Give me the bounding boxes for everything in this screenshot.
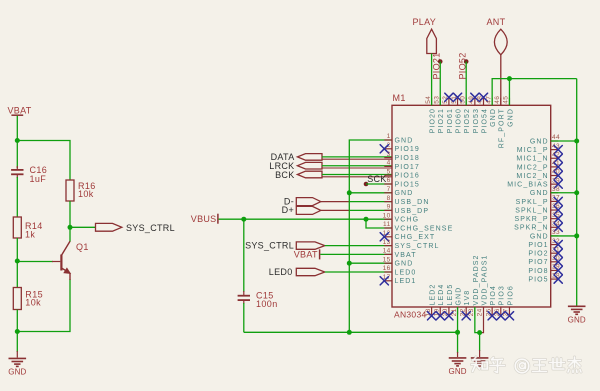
pin 33 GND (right) [530,229,560,240]
pin 6 PIO15 (left) [384,177,420,188]
pin 15 GND (left) [383,256,414,267]
svg-text:USB_DP: USB_DP [395,208,430,215]
no-connect X pin 12 [380,233,388,241]
no-connect X pin 49 [471,93,479,101]
svg-text:SPKL_P: SPKL_P [516,199,549,206]
wire C15 down to bottom ground wire [243,300,245,332]
svg-text:PIO1: PIO1 [528,242,548,249]
pin 1 GND (left) [384,133,413,144]
node rail junction pin 44 [574,139,579,144]
wire pin 45 GND up [508,79,510,106]
no-connect X pin 25 [488,312,496,320]
no-connect X pin 34 [554,223,562,231]
svg-text:GND: GND [395,137,414,144]
svg-text:10k: 10k [78,189,94,199]
node top GND junction [507,76,512,81]
svg-text:10k: 10k [25,298,41,308]
svg-text:PIO8: PIO8 [528,268,548,275]
wire base junction down to R15 [16,261,18,288]
antenna ANT symbol [494,29,507,55]
pin 50 PIO52 (top) [459,96,471,134]
wire LRCK to pin PIO17 [322,166,392,168]
IC value AN3034 [394,310,427,320]
pin 16 LED0 (left) [383,265,417,276]
wire pin 24 VDD_PADS1 down (dark) [480,315,484,333]
pin 54 PIO20 (top) [425,96,437,134]
pin 48 PIO54 (top) [477,96,489,134]
svg-text:CHG_EXT: CHG_EXT [395,234,436,241]
svg-text:46: 46 [494,96,501,104]
pin 26 PIO3 (bottom) [494,285,506,316]
wire PIO52 stub to pin 50 [465,62,467,106]
node VCHG_SENSE junction [364,217,369,222]
no-connect X pin 29 [554,266,562,274]
resistor R15 [13,288,43,310]
pin 41 MIC2_P (right) [517,160,560,171]
pin 19 LED4 (bottom) [433,284,445,317]
node base junction [15,259,20,264]
no-connect X pin 17 [380,277,388,285]
pin 51 PIO60 (top) [451,96,463,134]
no-connect X pin 27 [505,312,513,320]
pin 8 USB_DN (left) [384,195,429,206]
pin 18 LED2 (bottom) [425,284,437,317]
svg-text:8: 8 [387,195,391,202]
no-connect X pin 35 [554,215,562,223]
pin 39 MIC_BIAS (right) [507,177,560,188]
pin 37 SPKL_P (right) [516,195,560,206]
pin 24 VDD_PADS1 (bottom) [477,254,489,316]
wire pin7 GND [349,192,392,194]
input label BCK [275,170,322,180]
svg-text:PIO54: PIO54 [481,108,488,133]
node rail junction pin 33 [574,233,579,238]
wire SCK to pin PIO15 [366,183,392,185]
wire pin15 GND [349,262,392,264]
svg-text:VDD_PADS1: VDD_PADS1 [481,254,488,305]
svg-text:PIO6: PIO6 [507,285,514,305]
pin 30 PIO7 (right) [528,255,560,266]
net label PIO52 with attach dot [457,52,468,79]
pin 3 PIO18 (left) [384,151,420,162]
pin 20 LED5 (bottom) [442,284,454,317]
svg-text:VDD_PADS2: VDD_PADS2 [473,254,480,305]
svg-text:LED4: LED4 [438,284,445,306]
wire C16 to R14 [16,174,18,217]
no-connect X pin 19 [436,312,444,320]
ground GND (bottom left) [8,358,26,376]
svg-text:GND: GND [507,108,514,127]
antenna ANT label [487,17,506,27]
svg-text:16: 16 [383,265,391,272]
svg-text:1uF: 1uF [30,174,47,184]
wire junction to SYS_CTRL output label [70,226,96,228]
pin 53 PIO21 (top) [433,96,445,134]
ground (below IC, second) [471,358,489,366]
svg-text:VBAT: VBAT [294,250,318,260]
wire R15 down to emitter junction [16,310,18,332]
pin 34 SPKR_N (right) [514,221,560,232]
net label SCK with attach dot [364,174,387,186]
wire pin 33 GND to rail [551,235,577,237]
wire junction down to Q1 collector [69,227,71,241]
pin 9 USB_DP (left) [384,204,429,215]
svg-text:47: 47 [485,96,492,104]
no-connect X pin 31 [554,249,562,257]
svg-text:SCK: SCK [367,174,386,184]
wire BCK to pin PIO16 [322,175,392,177]
svg-text:PIO17: PIO17 [395,164,420,171]
node pads junction [477,330,482,335]
no-connect X pin 26 [497,312,505,320]
node rail junction pin 38 [574,190,579,195]
pin 28 PIO5 (right) [528,272,560,283]
no-connect X pin 22 [462,312,470,320]
no-connect X pin 42 [554,154,562,162]
wire junction down to C16 [16,141,18,170]
svg-text:23: 23 [468,308,475,316]
pin 40 MIC2_N (right) [516,169,560,180]
no-connect X pin 28 [554,275,562,283]
no-connect X pin 30 [554,258,562,266]
input label LRCK [269,161,322,171]
pin 5 PIO16 (left) [384,168,420,179]
svg-text:GND: GND [395,190,414,197]
svg-text:9: 9 [387,204,391,211]
no-connect X pin 2 [380,145,388,153]
pin 44 GND (right) [530,134,560,145]
ground GND (right) [568,306,586,324]
pin 31 PIO2 (right) [528,246,560,257]
svg-text:ANT: ANT [487,17,506,27]
svg-text:VCHG: VCHG [395,217,420,224]
pin 4 PIO17 (left) [384,160,420,171]
pin 43 MIC1_P (right) [517,143,560,154]
pin 42 MIC1_N (right) [516,151,560,162]
no-connect X pin 40 [554,171,562,179]
pin 14 VBAT (left) [383,248,417,259]
svg-text:GND: GND [530,138,549,145]
pin 23 VDD_PADS2 (bottom) [468,254,480,316]
wire VBAT down to junction [16,116,18,141]
svg-text:21: 21 [451,308,458,316]
svg-text:SYS_CTRL: SYS_CTRL [395,243,440,250]
supply symbol VBAT (top left) [8,105,32,115]
svg-text:MIC2_N: MIC2_N [516,173,548,180]
svg-text:USB_DN: USB_DN [395,199,430,206]
svg-text:PIO16: PIO16 [395,173,420,180]
svg-text:MIC1_P: MIC1_P [517,147,549,154]
pin 13 SYS_CTRL (left) [383,239,440,250]
svg-text:MIC2_P: MIC2_P [517,164,549,171]
svg-text:GND: GND [455,287,462,306]
svg-text:VBAT: VBAT [8,105,32,115]
no-connect X pin 37 [554,197,562,205]
svg-text:RF_PORT: RF_PORT [499,108,506,148]
capacitor C15 [238,291,278,310]
no-connect X pin 48 [479,93,487,101]
svg-text:54: 54 [425,96,432,104]
pin 45 GND (top) [503,96,515,127]
svg-text:53: 53 [433,96,440,104]
svg-text:SPKL_N: SPKL_N [515,207,548,214]
pin 47 GND (top) [485,96,497,127]
wire right GND rail [576,79,578,306]
svg-text:SPKR_N: SPKR_N [514,225,549,232]
svg-text:SYS_CTRL: SYS_CTRL [245,241,294,251]
svg-text:38: 38 [552,186,560,193]
no-connect X pin 41 [554,163,562,171]
svg-text:GND: GND [530,233,549,240]
svg-text:VBAT: VBAT [395,252,417,259]
node pin7 GND junction [347,190,352,195]
svg-text:PLAY: PLAY [413,17,437,27]
input label DATA [271,152,322,162]
wire junction down to C15 [243,219,245,295]
wire VBUS to pin VCHG [219,218,392,220]
svg-text:M1: M1 [393,93,406,103]
svg-text:GND: GND [568,316,586,325]
output label SYS_CTRL (left) [96,223,175,233]
svg-text:PIO4: PIO4 [490,285,497,305]
wire emitter junction down to ground [16,332,18,358]
svg-text:PIO18: PIO18 [395,155,420,162]
output label D- [284,196,321,206]
pin 7 GND (left) [384,186,413,197]
wire PIO21 stub to pin 53 [439,62,441,106]
svg-text:LED5: LED5 [447,284,454,306]
pin 17 LED1 (left) [383,274,417,285]
no-connect X pin 52 [445,93,453,101]
wire junction to right branch [17,141,70,181]
svg-text:D+: D+ [282,205,294,215]
svg-text:SYS_CTRL: SYS_CTRL [126,223,175,233]
node emitter junction [15,329,20,334]
svg-text:MIC_BIAS: MIC_BIAS [507,182,548,189]
node bottom GND junction [455,330,460,335]
IC reference M1 [393,93,406,103]
svg-text:PIO7: PIO7 [528,259,548,266]
svg-text:GND: GND [530,190,549,197]
svg-text:44: 44 [552,134,560,141]
svg-text:LED1: LED1 [395,278,417,285]
svg-text:33: 33 [552,229,560,236]
wire LED0 to pin 16 [325,271,392,273]
no-connect X pin 43 [554,146,562,154]
pin 32 PIO1 (right) [528,238,560,249]
pin 12 CHG_EXT (left) [383,230,436,241]
wire DATA to pin PIO18 [322,157,392,159]
pin 35 SPKR_P (right) [514,212,560,223]
svg-text:PIO53: PIO53 [473,108,480,133]
input label SYS_CTRL (to pin 13) [245,241,325,251]
wire R16 to SYS_CTRL junction [69,201,71,227]
input label LED0 [269,267,325,277]
svg-text:BCK: BCK [275,170,294,180]
pin 29 PIO8 (right) [528,264,560,275]
svg-text:PIO20: PIO20 [430,108,437,133]
svg-text:GND: GND [490,108,497,127]
net label PIO21 with attach dot [431,52,442,79]
node pin15 GND junction [347,261,352,266]
svg-text:45: 45 [503,96,510,104]
svg-text:1V8: 1V8 [464,290,471,306]
pin 38 GND (right) [530,186,560,197]
svg-text:11: 11 [383,221,391,228]
svg-text:GND: GND [449,367,467,376]
svg-text:PIO15: PIO15 [395,181,420,188]
pin 25 PIO4 (bottom) [485,285,497,316]
svg-text:PIO60: PIO60 [455,108,462,133]
pin 2 PIO19 (left) [384,142,420,153]
svg-text:Q1: Q1 [76,242,89,252]
svg-text:1k: 1k [25,230,35,240]
wire VCHG_SENSE jog [366,219,392,228]
svg-text:PIO5: PIO5 [528,276,548,283]
node GND rail bottom junction [347,330,352,335]
svg-text:10: 10 [383,212,391,219]
wire base junction to Q1 base [17,261,60,263]
node VBAT junction [15,138,20,143]
wire VBAT to pin 14 [320,253,392,255]
svg-text:GND: GND [395,261,414,268]
svg-text:PIO19: PIO19 [395,146,420,153]
wire SYS_CTRL to pin 13 [325,245,392,247]
capacitor C16 [11,165,47,184]
wire D- to pin USB_DN [321,201,392,203]
svg-text:LED0: LED0 [395,269,417,276]
svg-text:GND: GND [8,368,26,377]
wire pin 21 GND down [457,307,459,357]
node SYS_CTRL junction [68,225,73,230]
no-connect X pin 32 [554,240,562,248]
wire pin 23 VDD_PADS2 down [475,307,480,333]
wire emitter junction to Q1 emitter [17,279,70,332]
wire bottom ground run [244,331,458,333]
transistor Q1 [60,241,89,280]
svg-text:1: 1 [387,133,391,140]
svg-text:PIO2: PIO2 [528,251,548,258]
resistor R14 [13,217,42,240]
svg-text:24: 24 [477,308,484,316]
connector PLAY label [413,17,437,27]
svg-text:SPKR_P: SPKR_P [514,216,548,223]
svg-text:13: 13 [383,239,391,246]
svg-text:LED2: LED2 [430,284,437,306]
wire ANT to pin RF_PORT [500,55,502,106]
wire pads junction down to ground [479,333,481,357]
svg-text:VBUS: VBUS [191,214,217,224]
no-connect X pin 36 [554,206,562,214]
watermark zhihu@wangshijie [472,357,582,373]
ground GND (below IC) [449,358,467,376]
svg-text:PIO3: PIO3 [499,285,506,305]
resistor R16 [66,180,96,201]
pin 21 GND (bottom) [451,287,463,317]
svg-text:PIO52: PIO52 [464,108,471,133]
pin 52 PIO61 (top) [442,96,454,134]
svg-text:7: 7 [387,186,391,193]
wire PLAY to pin PIO20 [431,54,433,106]
pin 49 PIO53 (top) [468,96,480,134]
svg-text:50: 50 [459,96,466,104]
no-connect X pin 51 [453,93,461,101]
svg-text:AN3034: AN3034 [394,310,427,320]
no-connect X pin 20 [445,312,453,320]
pin 10 VCHG (left) [383,212,420,223]
pin 22 1V8 (bottom) [459,290,471,317]
wire top GND run (pins 47,45 to right rail) [492,79,577,106]
wire D+ to pin USB_DP [321,209,392,211]
supply symbol VBAT (pin 14) [294,249,320,259]
svg-text:VCHG_SENSE: VCHG_SENSE [395,225,454,232]
no-connect X pin 18 [428,312,436,320]
output label D+ [282,205,321,215]
node VBUS/C15 junction [241,217,246,222]
svg-text:LED0: LED0 [269,267,293,277]
svg-text:PIO21: PIO21 [438,108,445,133]
no-connect X pin 39 [554,180,562,188]
connector PLAY symbol [427,29,437,53]
svg-text:MIC1_N: MIC1_N [516,156,548,163]
svg-text:5: 5 [387,168,391,175]
wire pin 38 GND to rail [551,192,577,194]
pin 36 SPKL_N (right) [515,203,560,214]
svg-text:15: 15 [383,256,391,263]
wire R14 to base junction [16,238,18,261]
wire GND rail (pins 1,7,15) [349,140,392,332]
pin 11 VCHG_SENSE (left) [383,221,453,232]
svg-text:PIO61: PIO61 [447,108,454,133]
pin 46 RF_PORT (top) [494,96,506,148]
svg-text:6: 6 [387,177,391,184]
pin 27 PIO6 (bottom) [503,285,515,316]
svg-text:14: 14 [383,248,391,255]
svg-text:3: 3 [387,151,391,158]
supply symbol VBUS [191,214,218,224]
wire pin 44 GND to rail [551,140,577,142]
IC M1 AN3034 body [392,105,551,307]
svg-text:100n: 100n [256,299,278,309]
svg-text:4: 4 [387,160,391,167]
